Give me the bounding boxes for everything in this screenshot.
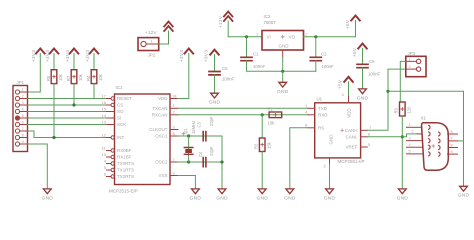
- svg-text:X1: X1: [421, 115, 427, 120]
- svg-text:120: 120: [407, 106, 412, 114]
- svg-text:IC2: IC2: [264, 14, 271, 19]
- ground GND (R2): [256, 189, 268, 201]
- svg-text:R1: R1: [268, 107, 274, 112]
- svg-text:C4: C4: [198, 151, 203, 157]
- capacitor C4 22pF: [198, 146, 214, 167]
- wire RXCAN line IC1 to U1 RXD: [178, 114, 308, 116]
- svg-text:100nF: 100nF: [253, 64, 266, 69]
- svg-text:1: 1: [151, 39, 153, 43]
- svg-text:4: 4: [305, 110, 308, 115]
- svg-text:CS: CS: [117, 103, 123, 108]
- svg-text:R5: R5: [46, 75, 51, 81]
- svg-text:18: 18: [172, 93, 177, 98]
- svg-text:GND: GND: [279, 44, 290, 49]
- wire JP1 pin3 to IC1 CS: [28, 104, 107, 106]
- wire C1 column: [246, 37, 248, 57]
- svg-text:2: 2: [305, 31, 308, 36]
- svg-text:GND: GND: [216, 195, 228, 201]
- svg-text:8: 8: [451, 143, 453, 147]
- wire CANL line to X1 pin2: [367, 134, 417, 137]
- svg-text:+12V: +12V: [218, 15, 223, 28]
- svg-text:5: 5: [409, 150, 411, 154]
- svg-text:VI: VI: [267, 35, 271, 40]
- wire R2 to GND: [261, 152, 263, 189]
- junction OSC2/crystal: [187, 160, 190, 163]
- svg-text:16: 16: [102, 100, 107, 105]
- svg-text:VDD: VDD: [346, 108, 351, 118]
- power +3V3 (C5 rail): [204, 50, 219, 62]
- svg-text:R2: R2: [254, 143, 259, 149]
- resistor R5 (10k pullup INT): [46, 70, 63, 84]
- svg-text:7: 7: [451, 137, 453, 141]
- svg-text:1: 1: [409, 123, 411, 127]
- wire JP1 pin9 to GND: [28, 144, 48, 189]
- wire R4 bottom to RESET wire: [94, 84, 107, 99]
- ground GND (C5): [209, 93, 221, 106]
- svg-text:5: 5: [368, 142, 371, 147]
- svg-text:GND: GND: [458, 193, 470, 199]
- wire +3V3 P1 stem to JP1 pin 1: [28, 54, 41, 93]
- svg-text:RXD: RXD: [318, 113, 328, 118]
- wire P4 to R4: [93, 54, 95, 70]
- wire gnd bus stem: [282, 71, 284, 82]
- capacitor C6 100nF: [357, 59, 381, 77]
- wire crystal column: [188, 136, 190, 162]
- svg-text:CLKOUT: CLKOUT: [149, 127, 168, 132]
- svg-text:1: 1: [305, 103, 308, 108]
- wire OSC1 line: [178, 135, 222, 137]
- svg-text:9: 9: [451, 150, 453, 154]
- power +5V (U1 VDD): [338, 77, 353, 89]
- ground GND (JP1): [42, 189, 54, 201]
- wire CANH top run to right edge: [388, 91, 464, 186]
- svg-text:RS: RS: [318, 126, 324, 131]
- wire IC2 VO to +5V: [304, 21, 356, 37]
- svg-text:IC1: IC1: [116, 85, 123, 90]
- wire JP3 pin1 to R3: [400, 61, 406, 102]
- svg-text:TX0RTS: TX0RTS: [117, 161, 134, 166]
- svg-text:CANH: CANH: [345, 128, 358, 133]
- svg-text:+3V3: +3V3: [31, 50, 36, 62]
- svg-text:R3: R3: [394, 107, 399, 113]
- svg-text:CANL: CANL: [345, 135, 358, 140]
- svg-text:C1: C1: [253, 52, 259, 57]
- power +3V3 P4 (above R4): [85, 49, 98, 63]
- power +12V (JP2): [145, 22, 173, 36]
- op-amp IC1 MCP2515-E/P: [102, 85, 179, 194]
- svg-text:15k: 15k: [266, 141, 271, 149]
- wire JP1 pin5 to IC1 SI: [28, 117, 107, 119]
- wire +5V to C6: [362, 49, 364, 65]
- svg-text:JP3: JP3: [408, 51, 416, 56]
- svg-text:+3V3: +3V3: [65, 50, 70, 62]
- svg-text:+5V: +5V: [338, 79, 343, 89]
- svg-text:9: 9: [22, 140, 24, 144]
- svg-text:15: 15: [102, 106, 107, 111]
- wire C1 to gnd bus: [247, 61, 316, 72]
- svg-text:VO: VO: [289, 35, 296, 40]
- svg-text:U1: U1: [317, 97, 323, 102]
- svg-text:R7: R7: [66, 75, 71, 81]
- connector X1 DB9: [407, 115, 458, 170]
- svg-text:10k: 10k: [268, 121, 276, 126]
- svg-text:GND: GND: [324, 195, 336, 201]
- svg-text:GND: GND: [277, 89, 289, 95]
- svg-text:C2: C2: [321, 52, 327, 57]
- svg-text:+3V3: +3V3: [179, 50, 184, 62]
- svg-text:10: 10: [102, 152, 107, 157]
- svg-text:RX0BF: RX0BF: [117, 148, 132, 153]
- capacitor C3 22pF: [196, 116, 214, 141]
- capacitor C2 100nF: [310, 52, 334, 70]
- svg-text:JP1: JP1: [17, 80, 25, 85]
- wire R7 bottom to CS line: [73, 84, 75, 105]
- junction gnd bus: [281, 70, 284, 73]
- svg-text:11: 11: [102, 145, 107, 150]
- svg-text:4: 4: [409, 143, 411, 147]
- svg-text:C3: C3: [196, 121, 201, 127]
- ground GND (RS): [284, 189, 296, 201]
- resistor R4 (10k pullup RESET): [86, 70, 103, 84]
- svg-text:13: 13: [102, 119, 107, 124]
- wire U1 RS to GND: [290, 128, 308, 189]
- svg-text:3: 3: [173, 124, 176, 129]
- svg-text:8: 8: [22, 134, 24, 138]
- svg-text:GND: GND: [190, 195, 202, 201]
- svg-text:16MHz: 16MHz: [191, 121, 196, 134]
- svg-text:TXCAN: TXCAN: [152, 106, 167, 111]
- svg-text:6: 6: [368, 132, 371, 137]
- wire INT line to IC1: [34, 137, 107, 139]
- svg-text:6: 6: [104, 171, 107, 176]
- wire +3V3 to C5: [214, 55, 216, 71]
- resistor R7 (10k pullup CS): [66, 70, 83, 84]
- svg-text:10k: 10k: [78, 73, 83, 81]
- svg-text:VDD: VDD: [158, 96, 168, 101]
- junction INT/R5: [52, 136, 55, 139]
- svg-text:2: 2: [22, 95, 24, 99]
- svg-text:9: 9: [173, 170, 176, 175]
- svg-text:2: 2: [412, 130, 414, 134]
- svg-text:GND: GND: [397, 195, 409, 201]
- svg-text:Q1: Q1: [183, 128, 188, 134]
- wire JP2 to +12V: [159, 31, 169, 44]
- wire OSC2 line: [178, 161, 222, 163]
- svg-text:C5: C5: [222, 66, 228, 71]
- junction OSC1/crystal: [187, 134, 190, 137]
- svg-text:17: 17: [102, 93, 107, 98]
- svg-text:100nF: 100nF: [368, 72, 381, 77]
- wire U1 VSS pin2 to GND: [329, 164, 331, 189]
- connector JP1: [13, 80, 28, 152]
- connector JP2 (12V input): [138, 38, 159, 58]
- junction CS/R7: [72, 103, 75, 106]
- svg-text:2: 2: [324, 164, 327, 169]
- power +5V (IC2 output): [345, 16, 360, 30]
- svg-text:100nF: 100nF: [322, 64, 335, 69]
- svg-text:6: 6: [22, 121, 24, 125]
- svg-text:3: 3: [342, 92, 345, 97]
- svg-text:5: 5: [22, 114, 24, 118]
- svg-text:RX1BF: RX1BF: [117, 155, 132, 160]
- svg-text:TX2RTS: TX2RTS: [117, 174, 134, 179]
- capacitor C5 100nF: [209, 66, 235, 82]
- resistor R3 120 (termination): [394, 102, 412, 116]
- svg-text:GND: GND: [329, 134, 334, 145]
- svg-text:GND: GND: [209, 100, 221, 106]
- svg-text:+12V: +12V: [145, 30, 157, 35]
- svg-text:7: 7: [22, 127, 24, 131]
- ground GND (C6): [357, 89, 369, 102]
- svg-text:TX1RTS: TX1RTS: [117, 168, 134, 173]
- svg-text:RXCAN: RXCAN: [152, 113, 168, 118]
- svg-text:1: 1: [173, 103, 176, 108]
- wire caps right column to GND: [221, 136, 223, 189]
- junction CANH net: [386, 90, 389, 93]
- svg-text:GND: GND: [256, 195, 268, 201]
- svg-text:OSC2: OSC2: [155, 160, 168, 165]
- wire C2 to gnd bus: [315, 61, 317, 72]
- svg-text:7: 7: [369, 125, 372, 130]
- svg-text:+3V3: +3V3: [204, 50, 209, 62]
- svg-text:INT: INT: [117, 135, 125, 140]
- svg-text:2: 2: [409, 65, 411, 69]
- wire C5 to GND: [214, 75, 216, 93]
- svg-text:+3V3: +3V3: [45, 50, 50, 62]
- wire JP3 pin2 branch: [388, 69, 406, 91]
- power +3V3 P3 (above R7): [65, 49, 78, 63]
- wire JP1 pin6 to IC1 SCK: [28, 124, 107, 126]
- svg-text:R4: R4: [86, 75, 91, 81]
- svg-text:RESET: RESET: [117, 96, 132, 101]
- svg-text:7805T: 7805T: [264, 20, 277, 25]
- svg-text:3: 3: [22, 101, 24, 105]
- svg-text:VSS: VSS: [158, 173, 167, 178]
- svg-text:GND: GND: [357, 95, 369, 101]
- junction RXCAN divider: [261, 113, 264, 116]
- svg-text:1: 1: [409, 57, 411, 61]
- wire X1 pin7 tap: [458, 140, 464, 142]
- svg-text:GND: GND: [42, 195, 54, 201]
- ground GND (crystal caps): [216, 189, 228, 201]
- svg-text:GND: GND: [284, 195, 296, 201]
- junction CANL/R3: [401, 135, 404, 138]
- wire R5 bottom to INT line: [53, 84, 55, 138]
- ground GND (IC1 VSS): [190, 189, 202, 201]
- svg-text:SO: SO: [117, 109, 124, 114]
- wire C2 column: [315, 37, 317, 57]
- ground GND (X1 right): [458, 186, 470, 198]
- svg-text:4: 4: [104, 158, 107, 163]
- wire JP1 pin4 to IC1 SO: [28, 111, 107, 113]
- svg-text:+3V3: +3V3: [85, 50, 90, 62]
- wire P2 to R5: [53, 54, 55, 70]
- svg-text:1: 1: [256, 31, 259, 36]
- svg-text:22pF: 22pF: [209, 116, 214, 126]
- wire TXCAN line IC1 to U1 TXD: [178, 107, 308, 109]
- crystal Q1 16MHz: [182, 121, 196, 155]
- svg-text:14: 14: [102, 113, 107, 118]
- svg-text:8: 8: [305, 123, 308, 128]
- wire CANH to JP3 net: [367, 91, 388, 130]
- svg-text:SI: SI: [117, 116, 121, 121]
- svg-text:VREF: VREF: [345, 145, 357, 150]
- svg-text:SCK: SCK: [117, 122, 126, 127]
- ground GND (U1 VSS): [324, 189, 336, 201]
- svg-text:+5V: +5V: [352, 47, 357, 57]
- junction C2 top: [314, 35, 317, 38]
- wire JP1 pin7 jog to INT line: [28, 131, 35, 138]
- svg-text:6: 6: [451, 130, 453, 134]
- junction C1 top: [245, 35, 248, 38]
- svg-text:8: 8: [173, 131, 176, 136]
- wire IC1 VSS to GND: [178, 176, 195, 189]
- svg-text:JP2: JP2: [148, 53, 156, 58]
- power +12V (IC2 input): [218, 12, 233, 29]
- svg-text:100nF: 100nF: [222, 77, 235, 82]
- power +3V3 P1 (JP1 pin1 supply): [31, 49, 45, 63]
- capacitor C1 100nF: [241, 52, 266, 70]
- svg-text:10k: 10k: [58, 73, 63, 81]
- power +3V3 P2 (above R5): [45, 49, 58, 63]
- wire R3 bottom to CANL junction and GND: [401, 116, 403, 189]
- svg-text:3: 3: [409, 136, 411, 140]
- svg-text:22pF: 22pF: [209, 146, 214, 156]
- regulator IC2 7805T: [256, 14, 308, 50]
- wire +12V to IC2 VI: [228, 21, 262, 37]
- wire IC1 VDD up to +3V3: [178, 54, 189, 99]
- wire C6 to GND: [362, 68, 364, 89]
- ground GND (R3/CANL column): [397, 189, 409, 201]
- transistor U1 MCP2551-I/P: [305, 92, 372, 168]
- svg-text:12: 12: [102, 132, 107, 137]
- connector JP3 (termination jumper): [406, 51, 426, 77]
- svg-text:4: 4: [22, 108, 24, 112]
- svg-text:2: 2: [173, 110, 176, 115]
- svg-text:C6: C6: [369, 59, 375, 64]
- svg-text:MCP2551-I/P: MCP2551-I/P: [338, 159, 365, 164]
- power +5V (C6 rail): [352, 44, 367, 58]
- wire P3 to R7: [73, 54, 75, 70]
- svg-text:5: 5: [104, 165, 107, 170]
- svg-text:MCP2515-E/P: MCP2515-E/P: [109, 189, 138, 194]
- svg-text:7: 7: [173, 157, 176, 162]
- svg-text:TXD: TXD: [318, 106, 328, 111]
- wire JP1 pin2 to IC1 RESET: [28, 98, 95, 100]
- wire +5V to U1 pin3: [348, 82, 350, 103]
- power +3V3 (IC1 VDD): [179, 49, 193, 63]
- junction OSC2 right: [220, 160, 223, 163]
- svg-text:+5V: +5V: [345, 19, 350, 29]
- svg-text:1: 1: [22, 88, 24, 92]
- wire IC2 GND pin down: [282, 50, 284, 57]
- svg-text:OSC1: OSC1: [155, 134, 168, 139]
- svg-text:10k: 10k: [98, 73, 103, 81]
- resistor R1 10k (series RXD): [268, 107, 282, 126]
- ground GND (IC2): [277, 82, 289, 95]
- resistor R2 15k (divider to GND): [254, 115, 272, 152]
